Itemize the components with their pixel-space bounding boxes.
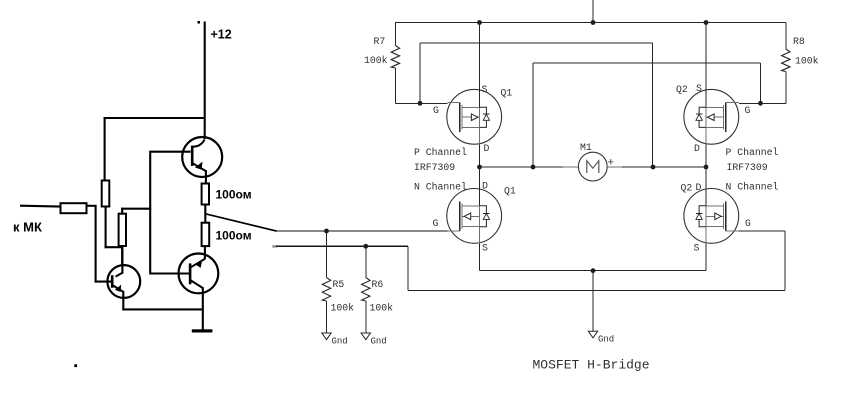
node crossover A tap dot <box>651 165 656 170</box>
mark stray dot bottom left <box>74 364 77 367</box>
wire left output to motor <box>480 166 564 168</box>
svg-text:P Channel: P Channel <box>414 147 467 158</box>
svg-text:IRF7309: IRF7309 <box>414 162 455 173</box>
wire crossover B right vertical <box>760 63 762 103</box>
wire +V top rail <box>395 22 786 24</box>
wire base column vertical <box>149 151 151 275</box>
transistor T1 emitter line <box>193 163 207 171</box>
wire R8 to Q2P gate horizontal <box>761 102 786 104</box>
wire Q1N source lead <box>479 243 481 270</box>
transistor T1 collector curve <box>193 140 205 147</box>
wire Q2N drain lead <box>705 167 707 189</box>
svg-text:N Channel: N Channel <box>414 182 467 193</box>
node crossover B tap dot <box>531 165 536 170</box>
wire supply feeder vertical <box>592 0 594 23</box>
wire Q2P source lead <box>705 23 707 90</box>
pin Q1P drain inside circle <box>479 127 481 144</box>
node sources bus center dot <box>591 268 596 273</box>
wire input lead <box>20 205 61 208</box>
svg-text:100ом: 100ом <box>216 229 252 243</box>
svg-text:Q1: Q1 <box>501 88 513 99</box>
transistor T1 emitter arrow <box>195 162 203 170</box>
transistor T3 circle <box>107 265 140 298</box>
wire R8 top lead <box>785 23 787 50</box>
transistor T2 emitter arrow <box>195 260 202 268</box>
svg-text:N Channel: N Channel <box>726 182 779 193</box>
node bridge right output dot <box>704 165 709 170</box>
transistor T1 circle <box>182 137 222 177</box>
ground R5 symbol <box>322 333 331 340</box>
ground center symbol <box>588 331 597 338</box>
wire Rin to riser <box>87 205 97 207</box>
transistor T2 base bar <box>189 263 192 284</box>
svg-text:D: D <box>484 143 490 154</box>
svg-text:D: D <box>696 182 702 193</box>
svg-text:Gnd: Gnd <box>332 337 348 347</box>
svg-text:G: G <box>745 105 751 116</box>
wire center ground lead <box>592 271 594 331</box>
svg-text:P Channel: P Channel <box>726 147 779 158</box>
mosfet Q1 P-channel symbol <box>447 89 502 144</box>
wire R6 bottom lead <box>365 301 367 333</box>
motor M1 circle <box>578 152 607 181</box>
svg-text:R8: R8 <box>793 36 805 47</box>
svg-text:D: D <box>694 143 700 154</box>
wire Q1P source lead <box>479 23 481 90</box>
svg-text:100k: 100k <box>331 303 355 314</box>
svg-text:R5: R5 <box>333 279 345 290</box>
wire RB top horizontal <box>121 208 151 210</box>
node Q2P source rail dot <box>704 20 709 25</box>
wire crossover B left vertical <box>532 63 534 167</box>
svg-text:Q2: Q2 <box>681 183 693 194</box>
node bridge left output dot <box>477 165 482 170</box>
wire crossover A right vertical <box>652 43 654 167</box>
wire crossover rail A horizontal y43 <box>420 42 653 44</box>
wire gate drive 2 bottom run <box>408 289 785 291</box>
wire sources bus <box>480 270 707 272</box>
node R6 tap dot <box>363 244 368 249</box>
svg-text:S: S <box>482 84 488 95</box>
transistor T2 collector line <box>190 280 204 289</box>
wire motor to right output <box>622 166 706 168</box>
wire inter-resistor node <box>204 205 206 223</box>
pin gate drive 2 open end nub <box>272 245 277 247</box>
pin Q1P source inside circle <box>479 90 481 108</box>
wire gate drive 1 horizontal <box>276 230 447 232</box>
motor M letter <box>587 161 599 173</box>
wire T2 collector stem <box>202 288 204 331</box>
transistor T2 circle <box>179 254 219 294</box>
svg-text:R7: R7 <box>374 36 386 47</box>
svg-text:Q1: Q1 <box>504 186 516 197</box>
resistor R7 zigzag <box>391 46 399 69</box>
pin motor right lead <box>607 166 622 168</box>
wire T3 emitter stem <box>122 291 124 310</box>
wire R6 top lead <box>365 246 367 277</box>
transistor T2 emitter line <box>191 259 205 267</box>
svg-text:MOSFET H-Bridge: MOSFET H-Bridge <box>533 358 650 373</box>
svg-text:Gnd: Gnd <box>371 337 387 347</box>
wire crossover A left vertical <box>419 43 421 103</box>
pin Q2N gate inside circle <box>726 230 739 232</box>
wire Q1P drain lead <box>479 145 481 168</box>
transistor T1 base bar <box>191 146 194 166</box>
transistor T2 emitter entry <box>204 255 206 260</box>
resistor Rin body <box>61 203 87 213</box>
pin Q2N drain inside circle <box>705 189 707 206</box>
svg-text:Gnd: Gnd <box>598 335 614 345</box>
transistor T3 base bar <box>111 275 114 288</box>
wire R7 to Q1P gate horizontal <box>395 102 420 104</box>
svg-text:D: D <box>482 181 488 192</box>
mark tick near +12 top <box>198 21 201 24</box>
pin Q1N source inside circle <box>479 227 481 244</box>
node Q1P source rail dot <box>477 20 482 25</box>
wire gate drive 2 horizontal <box>276 245 408 247</box>
wire R8 bottom lead <box>785 72 787 104</box>
wire RB top stub <box>121 208 123 214</box>
transistor T2 base horizontal <box>150 272 190 274</box>
ground R6 symbol <box>361 333 370 340</box>
mosfet Q2 P-channel symbol <box>684 89 739 144</box>
resistor RB body <box>119 214 126 246</box>
pin Q2N source inside circle <box>705 227 707 244</box>
wire Q2N source lead <box>705 243 707 270</box>
pin Q1N drain inside circle <box>479 189 481 206</box>
wire slant to gate drive 1 <box>206 214 277 231</box>
resistor RA body <box>102 181 110 207</box>
node supply rail junction dot <box>591 20 596 25</box>
svg-text:R6: R6 <box>372 279 384 290</box>
pin Q2P source inside circle <box>705 90 707 108</box>
svg-text:G: G <box>433 218 439 229</box>
wire R7 bottom lead <box>394 68 396 103</box>
svg-text:S: S <box>482 243 488 254</box>
mosfet Q1 N-channel symbol <box>447 189 502 244</box>
pin Q1N gate inside circle <box>447 230 460 232</box>
wire R5 top lead <box>326 231 328 278</box>
resistor R100-1 body <box>202 184 209 205</box>
svg-text:+12: +12 <box>211 28 232 42</box>
wire crossover rail B horizontal y63 <box>533 62 761 64</box>
transistor T3 collector bend <box>116 273 123 277</box>
wire +12 vertical <box>204 22 206 140</box>
wire T3 emitter to T2 collector <box>122 308 204 310</box>
svg-text:+: + <box>608 158 615 170</box>
svg-text:Q2: Q2 <box>676 84 688 95</box>
node Q2P gate junction dot <box>758 101 763 106</box>
wire Q1P gate lead <box>420 102 448 104</box>
resistor R8 zigzag <box>782 49 790 72</box>
svg-text:100k: 100k <box>795 56 819 67</box>
wire Q2P drain lead <box>705 145 707 168</box>
transistor T3 emitter line <box>112 285 123 292</box>
transistor T3 base horizontal <box>95 281 112 283</box>
node Q1P gate junction dot <box>418 101 423 106</box>
wire top rail to base divider <box>104 117 206 119</box>
wire R5 bottom lead <box>326 301 328 333</box>
resistor R100-2 body <box>202 223 210 246</box>
mosfet Q2 N-channel symbol <box>684 189 739 244</box>
svg-text:100k: 100k <box>370 303 394 314</box>
svg-text:S: S <box>694 243 700 254</box>
wire T3 collector stem <box>121 247 123 274</box>
transistor T3 emitter arrow <box>115 285 121 292</box>
node R5 tap dot <box>324 229 329 234</box>
wire T1 emitter stem <box>205 170 207 184</box>
resistor R6 zigzag <box>362 278 370 301</box>
pin motor left lead <box>563 166 578 168</box>
wire left branch vertical <box>104 117 106 181</box>
wire input riser vertical <box>95 206 97 283</box>
pin Q2P drain inside circle <box>705 127 707 144</box>
svg-text:G: G <box>433 105 439 116</box>
wire Q1N drain lead <box>479 167 481 189</box>
resistor R5 zigzag <box>322 278 330 301</box>
wire R100-2 to T2 <box>204 246 206 255</box>
wire T1 base horizontal <box>150 151 191 153</box>
svg-text:IRF7309: IRF7309 <box>727 162 768 173</box>
wire RA bottom to node <box>105 246 123 248</box>
wire gate drive 2 down <box>407 246 409 290</box>
wire Q2N gate horizontal <box>739 230 785 232</box>
wire gate drive 2 right riser <box>784 231 786 290</box>
svg-text:100k: 100k <box>364 55 388 66</box>
ground driver bar <box>192 329 213 332</box>
svg-text:S: S <box>696 83 702 94</box>
svg-text:100ом: 100ом <box>216 188 252 202</box>
wire RB bottom to T3 <box>121 246 123 267</box>
svg-text:G: G <box>745 218 751 229</box>
svg-text:M1: M1 <box>580 142 592 153</box>
wire R7 top lead <box>394 23 396 46</box>
wire Q2P gate lead <box>726 101 739 103</box>
wire RA bottom stem <box>105 207 107 249</box>
svg-text:к МК: к МК <box>13 220 42 235</box>
